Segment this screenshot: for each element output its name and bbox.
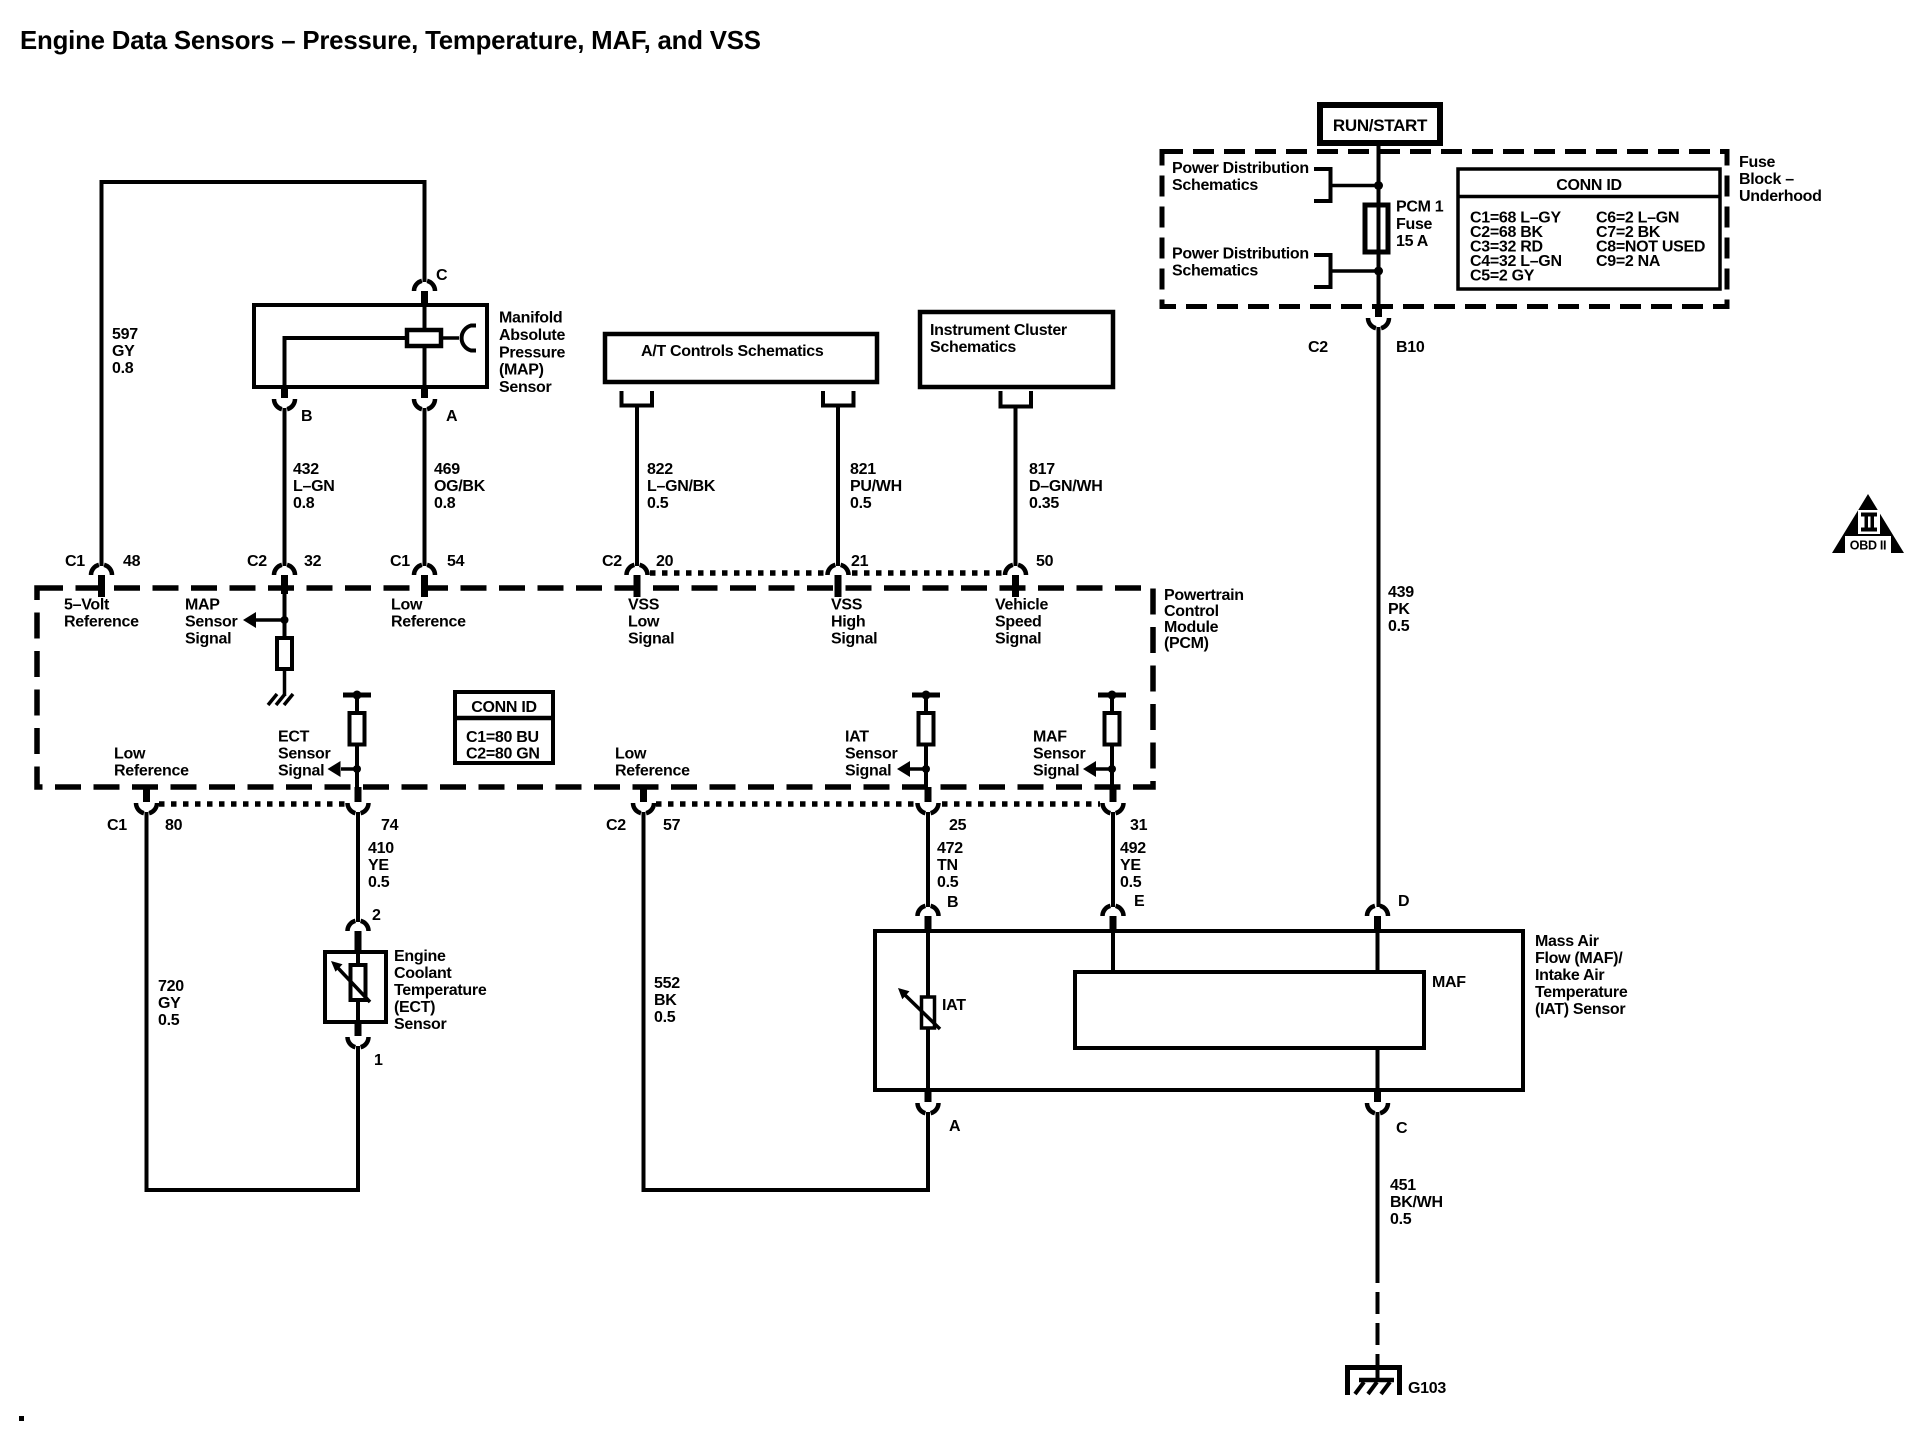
svg-text:C1: C1 — [65, 553, 85, 570]
connector C2 32 MAP signal — [247, 553, 322, 594]
svg-text:Absolute: Absolute — [499, 327, 565, 344]
MAP internal wire vertical — [423, 305, 427, 387]
MAF internal resistor — [1105, 695, 1120, 787]
svg-text:(PCM): (PCM) — [1164, 635, 1209, 652]
svg-text:Block –: Block – — [1739, 171, 1794, 188]
svg-text:451: 451 — [1390, 1177, 1416, 1194]
wire 432 L-GN — [283, 408, 287, 566]
wire MAP signal internal — [283, 590, 287, 638]
dotted connector line top C2 — [650, 570, 1003, 576]
svg-text:Signal: Signal — [628, 631, 674, 648]
svg-text:Engine Data Sensors – Pressure: Engine Data Sensors – Pressure, Temperat… — [20, 27, 761, 55]
Instrument Cluster Schematics box — [920, 312, 1113, 387]
wire 822 L-GN/BK — [635, 405, 639, 566]
ECT sensor label — [394, 948, 487, 1033]
svg-text:410: 410 — [368, 840, 394, 857]
svg-text:20: 20 — [656, 553, 674, 570]
wire label 469 OG/BK 0.8 — [434, 461, 486, 512]
svg-text:25: 25 — [949, 817, 967, 834]
MAP internal wire to transducer — [441, 336, 459, 340]
svg-text:VSS: VSS — [628, 597, 660, 614]
svg-text:0.5: 0.5 — [937, 874, 959, 891]
svg-text:MAP: MAP — [185, 597, 220, 614]
svg-text:Engine: Engine — [394, 948, 446, 965]
wire RUN/START to fuse — [1377, 143, 1381, 205]
svg-text:B10: B10 — [1396, 339, 1425, 356]
svg-text:Temperature: Temperature — [394, 982, 487, 999]
svg-text:0.8: 0.8 — [293, 495, 315, 512]
svg-text:472: 472 — [937, 840, 963, 857]
svg-text:Control: Control — [1164, 603, 1219, 620]
svg-text:0.5: 0.5 — [647, 495, 669, 512]
connector C2 B10 — [1308, 306, 1425, 356]
svg-text:TN: TN — [937, 857, 958, 874]
PCM CONN ID table — [455, 692, 553, 763]
svg-text:Speed: Speed — [995, 614, 1042, 631]
label vehicle speed signal — [995, 597, 1048, 648]
PCM MAP pulldown resistor — [277, 638, 292, 669]
wire E internal — [1111, 931, 1115, 972]
svg-text:High: High — [831, 614, 865, 631]
svg-text:C1: C1 — [107, 817, 127, 834]
wire 451 dashed to ground — [1376, 1283, 1380, 1380]
svg-text:Sensor: Sensor — [394, 1016, 447, 1033]
wire label 552 BK 0.5 — [654, 975, 680, 1026]
MAF inner box — [1075, 972, 1466, 1048]
PCM CONN ID rows — [466, 729, 540, 763]
svg-text:0.5: 0.5 — [158, 1012, 180, 1029]
svg-text:Schematics: Schematics — [1172, 177, 1258, 194]
label low reference 54 — [391, 597, 466, 631]
svg-text:0.5: 0.5 — [850, 495, 872, 512]
svg-text:54: 54 — [447, 553, 465, 570]
svg-text:VSS: VSS — [831, 597, 863, 614]
svg-text:L–GN/BK: L–GN/BK — [647, 478, 716, 495]
svg-text:Reference: Reference — [615, 763, 690, 780]
svg-text:B: B — [947, 894, 958, 911]
svg-text:0.5: 0.5 — [654, 1009, 676, 1026]
svg-text:80: 80 — [165, 817, 183, 834]
svg-text:439: 439 — [1388, 584, 1414, 601]
svg-text:31: 31 — [1130, 817, 1148, 834]
svg-text:Power Distribution: Power Distribution — [1172, 160, 1309, 177]
svg-text:MAF: MAF — [1033, 729, 1067, 746]
pin A of MAP sensor — [414, 387, 458, 425]
svg-text:720: 720 — [158, 978, 184, 995]
svg-text:5–Volt: 5–Volt — [64, 597, 110, 614]
svg-text:C2: C2 — [606, 817, 626, 834]
svg-text:Reference: Reference — [114, 763, 189, 780]
svg-text:Low: Low — [615, 746, 647, 763]
svg-text:A/T Controls Schematics: A/T Controls Schematics — [641, 343, 824, 360]
svg-text:Mass Air: Mass Air — [1535, 933, 1599, 950]
label VSS high signal — [831, 597, 877, 648]
wire label 597 GY 0.8 — [112, 326, 138, 377]
pin B of MAP sensor — [274, 387, 312, 425]
ECT thermistor arrow — [331, 961, 370, 1002]
title text — [20, 27, 761, 55]
svg-text:(MAP): (MAP) — [499, 362, 544, 379]
page artifact dot — [19, 1416, 24, 1421]
wire 552 BK — [644, 812, 929, 1190]
MAF signal arrow — [1083, 761, 1112, 777]
MAP pressure transducer crescent — [462, 326, 476, 351]
pin A of MAF sensor — [918, 1090, 962, 1135]
svg-text:492: 492 — [1120, 840, 1146, 857]
wire 597 GY top loop — [102, 182, 425, 566]
svg-text:Intake Air: Intake Air — [1535, 967, 1604, 984]
pin E of MAF sensor — [1103, 893, 1146, 931]
label low reference 57 — [615, 746, 690, 780]
connector C1 80 — [107, 787, 183, 834]
ECT internal T-bar — [343, 691, 371, 700]
wire label 410 YE 0.5 — [368, 840, 394, 891]
label IAT — [942, 997, 966, 1014]
junction ECT signal — [353, 765, 361, 773]
svg-text:PK: PK — [1388, 601, 1410, 618]
PCM internal ground — [268, 694, 293, 705]
MAF sensor label — [1535, 933, 1628, 1018]
ground G103 — [1345, 1365, 1402, 1395]
svg-text:C2=80 GN: C2=80 GN — [466, 746, 540, 763]
svg-text:15 A: 15 A — [1396, 233, 1429, 250]
pin D of MAF sensor — [1367, 893, 1409, 931]
svg-text:2: 2 — [372, 907, 381, 924]
fuse label PCM 1 Fuse 15 A — [1396, 199, 1444, 251]
label MAP sensor signal — [185, 597, 238, 648]
svg-text:GY: GY — [158, 995, 181, 1012]
label low reference 80 — [114, 746, 189, 780]
svg-text:597: 597 — [112, 326, 138, 343]
junction IAT signal — [922, 765, 930, 773]
wire D internal — [1376, 931, 1380, 1090]
svg-text:YE: YE — [1120, 857, 1141, 874]
wire label 822 L-GN/BK 0.5 — [647, 461, 716, 512]
svg-text:Powertrain: Powertrain — [1164, 587, 1244, 604]
wire fuse to B10 — [1377, 252, 1381, 306]
svg-text:32: 32 — [304, 553, 322, 570]
svg-text:Sensor: Sensor — [278, 746, 331, 763]
A/T Controls Schematics box — [605, 334, 877, 382]
svg-text:Schematics: Schematics — [930, 339, 1016, 356]
svg-text:0.5: 0.5 — [1390, 1211, 1412, 1228]
pin 1 of ECT sensor — [348, 1022, 384, 1069]
svg-text:1: 1 — [374, 1052, 383, 1069]
label G103 — [1408, 1380, 1446, 1397]
IAT thermistor — [922, 931, 935, 1090]
svg-text:821: 821 — [850, 461, 876, 478]
svg-text:Signal: Signal — [995, 631, 1041, 648]
svg-text:Low: Low — [628, 614, 660, 631]
svg-text:Pressure: Pressure — [499, 345, 565, 362]
wire label 821 PU/WH 0.5 — [850, 461, 902, 512]
connector 21 VSS high — [828, 553, 869, 597]
MAP sensor label — [499, 310, 565, 397]
MAF sensor box — [875, 931, 1523, 1090]
svg-text:GY: GY — [112, 343, 135, 360]
connector C2 57 — [606, 787, 681, 834]
label 5-volt reference — [64, 597, 139, 631]
connector 31 — [1103, 787, 1148, 834]
MAP internal wire from B — [285, 336, 408, 387]
fuse PCM 1 15A — [1365, 205, 1388, 252]
svg-text:Signal: Signal — [1033, 763, 1079, 780]
svg-text:Low: Low — [114, 746, 146, 763]
svg-text:D–GN/WH: D–GN/WH — [1029, 478, 1102, 495]
svg-text:D: D — [1398, 893, 1409, 910]
ECT internal resistor — [350, 695, 365, 787]
wire bracket2 to node — [1331, 269, 1379, 273]
ECT thermistor — [351, 952, 366, 1022]
svg-text:Coolant: Coolant — [394, 965, 452, 982]
label IAT sensor signal — [845, 729, 898, 780]
wire label 817 D-GN/WH 0.35 — [1029, 461, 1102, 512]
svg-text:822: 822 — [647, 461, 673, 478]
svg-text:(ECT): (ECT) — [394, 999, 435, 1016]
power distribution schematics label 1 — [1172, 160, 1309, 194]
svg-text:CONN ID: CONN ID — [471, 699, 536, 716]
svg-text:74: 74 — [381, 817, 399, 834]
svg-text:0.8: 0.8 — [434, 495, 456, 512]
IAT signal arrow — [897, 761, 926, 777]
svg-text:0.5: 0.5 — [1120, 874, 1142, 891]
label ECT sensor signal — [278, 729, 331, 780]
svg-text:21: 21 — [851, 553, 869, 570]
wire label 472 TN 0.5 — [937, 840, 963, 891]
dotted connector line bottom C1 — [159, 801, 346, 807]
PCM dashed box — [37, 588, 1153, 787]
wire 817 D-GN/WH — [1014, 406, 1018, 566]
connector 25 — [918, 787, 967, 834]
power distribution bracket 2 — [1314, 255, 1331, 287]
OBD II triangle — [1832, 494, 1904, 553]
svg-text:A: A — [949, 1118, 961, 1135]
svg-text:0.8: 0.8 — [112, 360, 134, 377]
wire 469 OG/BK — [423, 408, 427, 566]
svg-text:48: 48 — [123, 553, 141, 570]
svg-text:Signal: Signal — [831, 631, 877, 648]
power distribution schematics label 2 — [1172, 246, 1309, 280]
pin C of MAF sensor — [1367, 1090, 1408, 1137]
svg-text:57: 57 — [663, 817, 681, 834]
svg-text:469: 469 — [434, 461, 460, 478]
svg-text:Signal: Signal — [185, 631, 231, 648]
label MAF sensor signal — [1033, 729, 1086, 780]
IAT thermistor arrow — [898, 988, 940, 1029]
svg-text:Fuse: Fuse — [1739, 154, 1776, 171]
junction node below fuse — [1374, 267, 1383, 276]
label VSS low signal — [628, 597, 674, 648]
svg-text:PCM 1: PCM 1 — [1396, 199, 1444, 216]
svg-text:C: C — [436, 267, 448, 284]
wire bracket1 to node — [1331, 184, 1379, 188]
svg-text:Module: Module — [1164, 619, 1219, 636]
wire 472 TN — [926, 812, 930, 907]
svg-text:C2: C2 — [247, 553, 267, 570]
svg-text:IAT: IAT — [942, 997, 966, 1014]
MAP sensor box — [254, 305, 487, 387]
svg-text:Instrument Cluster: Instrument Cluster — [930, 322, 1067, 339]
svg-text:IAT: IAT — [845, 729, 869, 746]
svg-text:Schematics: Schematics — [1172, 263, 1258, 280]
ECT signal arrow — [328, 761, 358, 777]
svg-text:C2: C2 — [602, 553, 622, 570]
wire label 451 BK/WH 0.5 — [1390, 1177, 1443, 1228]
MAF internal T-bar — [1098, 691, 1126, 700]
ECT sensor box — [325, 952, 386, 1022]
svg-text:50: 50 — [1036, 553, 1054, 570]
connector C2 20 VSS low — [602, 553, 674, 597]
junction MAF signal — [1108, 765, 1116, 773]
svg-text:Signal: Signal — [278, 763, 324, 780]
connector 74 — [348, 787, 399, 834]
junction MAP signal — [281, 616, 289, 624]
svg-text:L–GN: L–GN — [293, 478, 334, 495]
RUN/START box — [1320, 105, 1440, 143]
svg-text:Reference: Reference — [64, 614, 139, 631]
svg-text:432: 432 — [293, 461, 319, 478]
svg-text:(IAT) Sensor: (IAT) Sensor — [1535, 1001, 1625, 1018]
svg-text:C1=80 BU: C1=80 BU — [466, 729, 539, 746]
svg-text:Signal: Signal — [845, 763, 891, 780]
wire 821 PU/WH — [836, 405, 840, 566]
svg-text:Sensor: Sensor — [185, 614, 238, 631]
svg-text:0.5: 0.5 — [368, 874, 390, 891]
pin B of MAF sensor — [918, 894, 959, 931]
svg-text:Temperature: Temperature — [1535, 984, 1628, 1001]
svg-text:ECT: ECT — [278, 729, 310, 746]
svg-text:PU/WH: PU/WH — [850, 478, 902, 495]
A/T tab 1 — [622, 391, 653, 406]
svg-text:OG/BK: OG/BK — [434, 478, 486, 495]
connector C of MAP sensor — [414, 267, 448, 305]
svg-text:Reference: Reference — [391, 614, 466, 631]
A/T tab 2 — [823, 391, 854, 406]
MAP internal resistor — [407, 330, 441, 346]
wire 439 PK — [1377, 327, 1381, 907]
svg-text:Vehicle: Vehicle — [995, 597, 1048, 614]
junction node above fuse — [1374, 181, 1383, 190]
IAT internal T-bar — [912, 691, 940, 700]
connector 50 vehicle speed — [1005, 553, 1054, 597]
connector C1 48 5-volt ref — [65, 553, 141, 597]
pin 2 of ECT sensor — [348, 907, 382, 952]
svg-text:0.35: 0.35 — [1029, 495, 1059, 512]
wire label 432 L-GN 0.8 — [293, 461, 334, 512]
wire resistor to ground — [283, 669, 287, 696]
svg-text:C1: C1 — [390, 553, 410, 570]
dotted connector line bottom C2 — [656, 801, 1100, 807]
svg-text:Underhood: Underhood — [1739, 188, 1822, 205]
fuse CONN ID table box — [1458, 169, 1720, 289]
svg-text:CONN ID: CONN ID — [1556, 177, 1621, 194]
connector C1 54 low ref — [390, 553, 465, 597]
svg-text:C5=2 GY: C5=2 GY — [1470, 268, 1535, 285]
fuse CONN ID left column — [1470, 210, 1562, 285]
svg-text:C: C — [1396, 1120, 1408, 1137]
svg-text:Low: Low — [391, 597, 423, 614]
svg-text:RUN/START: RUN/START — [1333, 116, 1428, 135]
wire 492 YE — [1111, 812, 1115, 907]
svg-text:B: B — [301, 408, 312, 425]
svg-text:Manifold: Manifold — [499, 310, 562, 327]
IAT internal resistor — [919, 695, 934, 787]
svg-text:OBD II: OBD II — [1850, 539, 1886, 553]
svg-text:MAF: MAF — [1432, 974, 1466, 991]
svg-text:Power Distribution: Power Distribution — [1172, 246, 1309, 263]
svg-text:817: 817 — [1029, 461, 1055, 478]
fuse CONN ID right column — [1596, 210, 1705, 271]
wire label 492 YE 0.5 — [1120, 840, 1146, 891]
wire label 439 PK 0.5 — [1388, 584, 1414, 635]
wire 451 BK/WH solid — [1376, 1112, 1380, 1283]
svg-text:E: E — [1134, 893, 1145, 910]
svg-text:BK: BK — [654, 992, 677, 1009]
svg-text:Fuse: Fuse — [1396, 216, 1433, 233]
svg-text:C2: C2 — [1308, 339, 1328, 356]
svg-text:552: 552 — [654, 975, 680, 992]
wire label 720 GY 0.5 — [158, 978, 184, 1029]
svg-text:Sensor: Sensor — [845, 746, 898, 763]
svg-text:C9=2 NA: C9=2 NA — [1596, 253, 1661, 270]
svg-text:0.5: 0.5 — [1388, 618, 1410, 635]
svg-text:A: A — [446, 408, 458, 425]
power distribution bracket 1 — [1314, 169, 1331, 201]
PCM label — [1164, 587, 1244, 652]
svg-text:G103: G103 — [1408, 1380, 1446, 1397]
svg-text:Sensor: Sensor — [1033, 746, 1086, 763]
svg-text:BK/WH: BK/WH — [1390, 1194, 1443, 1211]
svg-text:Flow (MAF)/: Flow (MAF)/ — [1535, 950, 1623, 967]
fuse block label — [1739, 154, 1822, 205]
Instrument Cluster tab — [1001, 391, 1032, 407]
fuse block dashed box — [1162, 152, 1727, 307]
svg-text:YE: YE — [368, 857, 389, 874]
MAP signal arrow — [243, 612, 285, 628]
wire 720 GY — [147, 812, 359, 1190]
wire 410 YE — [356, 812, 360, 922]
svg-text:Sensor: Sensor — [499, 379, 552, 396]
